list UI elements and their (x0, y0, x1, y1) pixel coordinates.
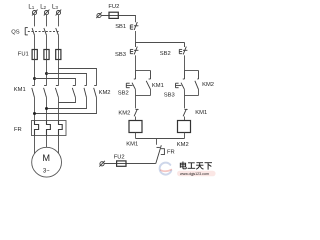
svg-text:SB1: SB1 (115, 24, 126, 30)
svg-text:SB3: SB3 (164, 93, 175, 99)
wire KM2 aux down (198, 89, 200, 95)
svg-text:3~: 3~ (43, 168, 50, 175)
wire right branch down from box (183, 89, 185, 108)
svg-text:KM1: KM1 (195, 110, 207, 116)
svg-text:KM2: KM2 (177, 142, 189, 148)
svg-text:L2: L2 (40, 4, 46, 10)
svg-text:FR: FR (14, 127, 22, 133)
wire SB2 to parallel box right (184, 55, 186, 70)
wire KM2 pole3 output crossover to phase1 (35, 98, 97, 114)
pushbutton SB3 normally open (right branch) (176, 71, 185, 90)
thermal relay FR heater3 (59, 121, 63, 136)
wire QS to FU1 phase2 (46, 35, 48, 49)
pushbutton SB2 normally open (left branch) (126, 71, 135, 90)
svg-text:L3: L3 (52, 4, 58, 10)
svg-text:KM1: KM1 (152, 83, 164, 89)
wire QS to FU1 phase3 (58, 35, 60, 49)
coil KM1 (129, 121, 142, 133)
contact KM1 auxiliary NO (left branch) (146, 71, 150, 90)
switch QS pole 2 blade (44, 28, 47, 35)
svg-text:FU2: FU2 (114, 155, 125, 161)
switch QS pole 3 blade (56, 28, 59, 35)
contact KM1 interlock NC (right branch) (183, 109, 188, 116)
contact KM2 auxiliary NO (right branch) (195, 71, 199, 90)
node L3 feed to KM2, wire (59, 69, 97, 86)
wire to coil KM1 (135, 117, 137, 122)
svg-text:www.dgjs123.com: www.dgjs123.com (180, 172, 209, 176)
junction dot L2 feed (45, 72, 48, 75)
wire bottom rail (136, 138, 185, 140)
switch QS pole 1 blade (32, 28, 34, 35)
coil KM2 (178, 121, 191, 133)
wire FR to motor W (58, 136, 60, 155)
wire FU1 to KM1 phase1 (34, 60, 36, 86)
wire SB1 to branch bar (135, 31, 137, 43)
contactor KM2 pole3 (94, 86, 97, 98)
wire FU1 to KM1 phase2 (46, 60, 48, 86)
pushbutton SB1 normally closed (130, 22, 138, 30)
svg-text:FU2: FU2 (108, 4, 119, 10)
wire KM1 pole1 to FR (34, 98, 36, 121)
wire parallel box top bar left (136, 70, 151, 72)
wire FR to motor V (46, 136, 48, 149)
wire bottom line (104, 163, 156, 165)
svg-text:KM2: KM2 (99, 90, 111, 96)
wire parallel box top bar right (185, 70, 199, 72)
junction dot L1 feed (33, 77, 36, 80)
junction dot phase1 output (33, 112, 36, 115)
svg-text:SB3: SB3 (115, 52, 126, 58)
thermal relay FR heater1 (35, 121, 39, 136)
wire L1 to QS (34, 15, 36, 27)
svg-text:QS: QS (11, 30, 20, 36)
svg-text:FU1: FU1 (18, 52, 29, 58)
svg-text:SB2: SB2 (160, 51, 171, 57)
wire L2 to QS (46, 15, 48, 27)
terminal L2 (44, 10, 50, 16)
svg-text:SB2: SB2 (118, 91, 129, 97)
fuse FU1 pole1 (32, 50, 37, 60)
wire to coil KM2 (184, 117, 186, 122)
terminal control bottom (99, 161, 105, 167)
junction dot phase2 output (45, 107, 48, 110)
wire L3 to QS (58, 15, 60, 27)
wire parallel box bottom bar left (136, 95, 151, 97)
thermal relay FR box (32, 121, 67, 136)
wire KM1 aux down (150, 89, 152, 95)
wire rail to FR contact (156, 139, 158, 145)
wire QS to FU1 phase1 (34, 35, 36, 49)
contactor KM2 pole2 (84, 86, 87, 98)
wire KM2 pole2 output crossover to phase2 (47, 98, 87, 109)
terminal control top (96, 12, 102, 18)
contact KM2 interlock NC (left branch) (134, 109, 139, 116)
thermal relay FR heater2 (47, 121, 51, 136)
pushbutton SB3 normally closed (left branch) (130, 43, 138, 55)
contactor KM1 pole1 (32, 86, 35, 98)
wire SB3 to parallel box left (135, 55, 137, 70)
svg-text:KM2: KM2 (118, 111, 130, 117)
fuse FU1 pole2 (44, 50, 49, 60)
wire KM1 pole3 to FR (58, 98, 60, 121)
watermark banner (177, 171, 216, 177)
terminal L3 (56, 10, 62, 16)
wire L1 feed to KM2 (35, 79, 76, 86)
svg-text:KM1: KM1 (126, 142, 138, 148)
wire L2 feed to KM2 (47, 74, 87, 86)
wire terminal to SB1 corner (101, 16, 135, 23)
wire coil KM2 to rail (184, 133, 186, 139)
wire FU1 to KM1 phase3 (58, 60, 60, 86)
wire parallel box bottom bar right (185, 95, 199, 97)
wire left branch down from box (134, 89, 136, 108)
wire FR to motor U (34, 136, 36, 155)
thermal contact FR NC (156, 145, 165, 163)
svg-text:KM1: KM1 (14, 87, 26, 93)
fuse FU1 pole3 (56, 50, 61, 60)
contactor KM2 pole1 (72, 86, 75, 98)
pushbutton SB2 normally closed (right branch) (179, 43, 187, 55)
svg-text:M: M (42, 153, 50, 163)
terminal L1 (32, 10, 38, 16)
svg-text:FR: FR (167, 149, 175, 155)
wire KM1 pole2 to FR (46, 98, 48, 121)
contactor KM1 pole3 (55, 86, 58, 98)
watermark logo swirl (160, 163, 172, 175)
wire KM2 pole1 output crossover to phase3 (59, 98, 76, 103)
svg-text:L1: L1 (28, 4, 34, 10)
svg-text:电工天下: 电工天下 (179, 161, 213, 171)
wire branch bar (136, 42, 185, 44)
motor M circle (32, 147, 62, 177)
svg-text:KM2: KM2 (202, 82, 214, 88)
fuse FU2 bottom (117, 161, 126, 166)
wire coil KM1 to rail (135, 133, 137, 139)
fuse FU2 top (109, 12, 118, 18)
switch QS linkage dashed (28, 31, 60, 33)
contactor KM1 pole2 (44, 86, 47, 98)
switch QS handle (25, 27, 28, 35)
